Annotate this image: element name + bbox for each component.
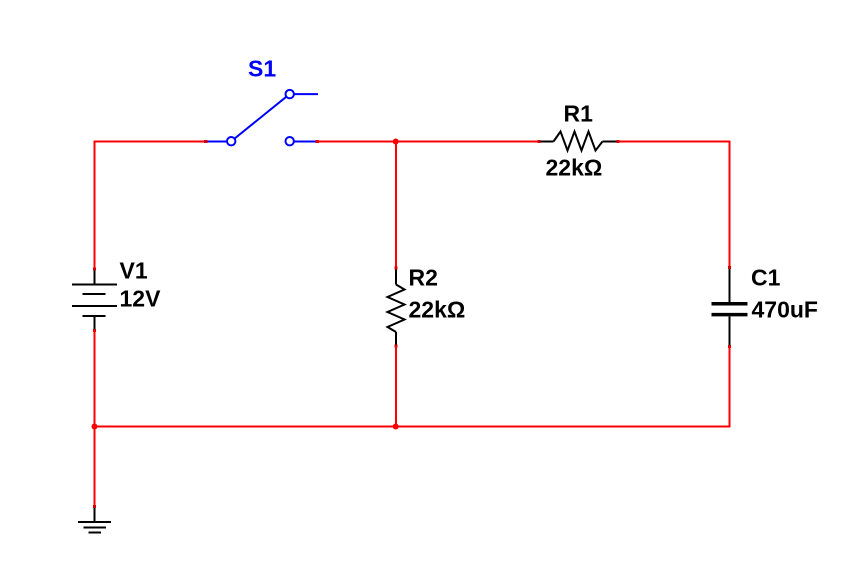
S1 throw arm (diagonal blade) [235, 97, 287, 139]
battery V1 [72, 269, 117, 331]
svg-text:S1: S1 [248, 56, 276, 82]
junction node B (left) [92, 424, 98, 430]
svg-text:12V: 12V [120, 286, 162, 312]
wire top-left horizontal (node from V1+ to S1 pin 1) [94, 141, 207, 143]
wire V1 bottom to bottom rail [94, 331, 96, 428]
switch S1 [205, 90, 318, 145]
wire C1 bottom to bottom rail [729, 347, 731, 428]
wire R2 top (node A down to R2) [395, 142, 397, 269]
svg-text:R1: R1 [564, 101, 594, 127]
S1 lead left [205, 141, 227, 143]
svg-text:V1: V1 [120, 258, 148, 284]
ground [78, 507, 111, 533]
wire R2 bottom to bottom rail [395, 346, 397, 427]
S1 terminal circle left (pin 1) [227, 137, 235, 145]
svg-text:470uF: 470uF [752, 297, 818, 323]
pin dot R2 top [395, 267, 398, 270]
junction node A [393, 139, 399, 145]
pin dot V1 top [93, 268, 96, 271]
junction node C (center) [393, 424, 399, 430]
svg-text:R2: R2 [409, 265, 438, 291]
wire ground drop [94, 427, 96, 507]
pin dot S1 left [204, 140, 208, 143]
wire left vertical (V1+ up to top row) [94, 141, 96, 270]
wire node A to R1 left [396, 141, 540, 143]
pin dot V1 bottom [93, 329, 96, 332]
wire S1 pin3 to node A [317, 141, 397, 143]
pin dot R1 left [538, 140, 541, 143]
wire right vertical down to C1 top [729, 141, 731, 268]
pin dot C1 bottom [728, 345, 731, 348]
wire R1 right to top-right corner [618, 141, 731, 143]
pin dot R2 bottom [395, 345, 398, 348]
resistor R1 [540, 132, 618, 151]
pin dot C1 top [728, 266, 731, 269]
svg-text:22kΩ: 22kΩ [409, 297, 466, 323]
capacitor C1 [712, 268, 748, 347]
S1 terminal circle bottom right (pin 3) [286, 137, 294, 145]
svg-text:C1: C1 [751, 265, 781, 291]
svg-text:22kΩ: 22kΩ [546, 155, 603, 181]
resistor R2 [388, 268, 405, 346]
S1 lead top right [294, 93, 318, 95]
pin dot R1 right [617, 140, 620, 143]
wire bottom rail [95, 426, 731, 428]
S1 lead bottom right [294, 141, 317, 143]
pin dot S1 right [316, 140, 320, 143]
S1 terminal circle top (pin 2) [286, 90, 294, 98]
pin dot ground [93, 505, 96, 508]
